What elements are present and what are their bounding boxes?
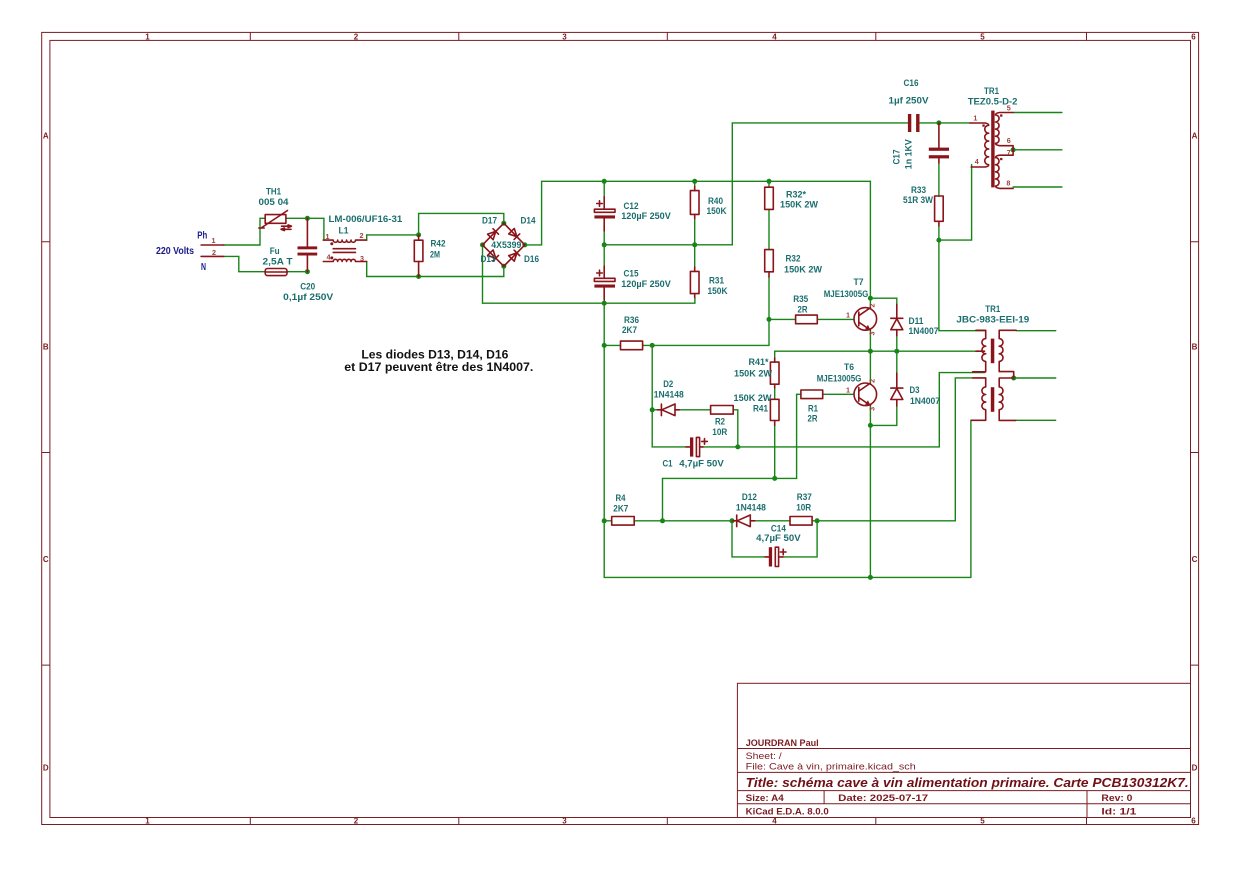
wire L1 pin2 to R42 top — [367, 234, 419, 236]
wire top rail to C12 — [603, 181, 605, 196]
svg-text:R41*: R41* — [749, 357, 769, 368]
wire mid rail to C15 — [603, 245, 605, 266]
svg-text:1N4148: 1N4148 — [654, 389, 685, 400]
wire pin1 to TH1 — [224, 218, 265, 245]
wire D3 cathode to rail — [896, 351, 898, 373]
diode D2 — [660, 404, 662, 416]
svg-text:0,1µf 250V: 0,1µf 250V — [283, 292, 334, 303]
svg-text:A: A — [43, 132, 49, 141]
wire D12 cathode lead — [732, 520, 737, 522]
wire R37 to TR1 riser — [812, 520, 955, 522]
wire TEZ pin8 output — [1013, 186, 1062, 188]
wire row drop to D12 row — [662, 478, 664, 520]
svg-text:A: A — [1192, 132, 1198, 141]
wire C15 bottom lead — [603, 300, 605, 303]
inductor L1 common-mode choke — [323, 240, 366, 261]
svg-text:R4: R4 — [616, 493, 627, 504]
wire top rail to R32* — [768, 181, 770, 187]
svg-text:TR1: TR1 — [985, 304, 1001, 315]
wire bridge right to top rail — [525, 181, 871, 245]
junction — [815, 518, 820, 523]
junction — [936, 120, 941, 125]
wire TEZ pin6-7 output — [1013, 149, 1062, 151]
wire emitter rail to TR1 tap — [775, 350, 976, 352]
svg-text:B: B — [43, 342, 49, 351]
wire T6 emitter to bottom rail — [869, 425, 871, 577]
svg-text:1µf 250V: 1µf 250V — [889, 96, 930, 107]
resistor R35 — [796, 315, 818, 324]
svg-text:File: Cave à vin, primaire.kic: File: Cave à vin, primaire.kicad_sch — [746, 762, 916, 772]
resistor R40 — [694, 187, 696, 219]
svg-text:3: 3 — [360, 254, 364, 263]
fuse Fu — [265, 269, 287, 276]
wire L1 pin2 riser — [366, 235, 368, 240]
wire R36 to R35 node column — [643, 344, 769, 346]
wire R32 bottom to R35 node — [768, 277, 770, 319]
svg-text:8: 8 — [1006, 179, 1010, 188]
wire R41 bottom drop — [774, 426, 776, 479]
svg-text:1: 1 — [326, 232, 330, 241]
svg-text:et D17 peuvent être des 1N4007: et D17 peuvent être des 1N4007. — [344, 360, 533, 374]
wire L1 pin3 to R42 bottom — [367, 262, 419, 277]
resistor R4 — [612, 517, 635, 526]
wire T7 collector to D11 — [870, 298, 896, 304]
junction — [602, 301, 607, 306]
wire pin2 to fuse — [224, 256, 265, 271]
diode D13 — [488, 250, 499, 261]
transformer TR1 TEZ0.5-D-2 — [970, 111, 1013, 189]
connector pin 2 N — [201, 255, 224, 257]
junction — [602, 179, 607, 184]
junction — [650, 343, 655, 348]
junction — [660, 518, 665, 523]
svg-text:Id: 1/1: Id: 1/1 — [1101, 806, 1136, 817]
svg-text:2: 2 — [354, 32, 359, 41]
resistor R32 — [765, 250, 774, 272]
svg-text:Sheet: /: Sheet: / — [746, 751, 783, 761]
connector pin 1 Ph — [201, 244, 224, 246]
svg-text:120µF 250V: 120µF 250V — [621, 211, 671, 222]
svg-text:JOURDRAN Paul: JOURDRAN Paul — [746, 737, 819, 748]
svg-text:B: B — [1192, 342, 1198, 351]
svg-text:1: 1 — [145, 817, 150, 826]
junction — [602, 518, 607, 523]
junction — [868, 575, 873, 580]
svg-text:2R: 2R — [798, 304, 808, 315]
capacitor C16 — [908, 114, 920, 132]
junction — [305, 216, 310, 221]
svg-text:150K 2W: 150K 2W — [734, 393, 773, 404]
svg-text:L1: L1 — [339, 225, 350, 236]
svg-text:D: D — [1192, 763, 1198, 772]
transistor T7 — [854, 308, 877, 331]
svg-text:D2: D2 — [663, 379, 673, 390]
transistor T6 — [854, 383, 877, 406]
junction — [730, 518, 735, 523]
resistor R2 — [711, 406, 734, 415]
svg-text:10R: 10R — [712, 427, 727, 438]
svg-text:2,5A T: 2,5A T — [263, 257, 293, 268]
transformer TR1 JBC-983-EEI-19 — [971, 330, 1016, 420]
svg-text:Date: 2025-07-17: Date: 2025-07-17 — [838, 792, 928, 803]
wire bridge left drop — [482, 245, 484, 303]
svg-text:5: 5 — [1007, 104, 1011, 113]
wire T6 emitter to D3 — [870, 406, 896, 426]
svg-text:D3: D3 — [910, 385, 920, 396]
svg-text:1N4007: 1N4007 — [910, 396, 940, 407]
svg-text:6: 6 — [1191, 817, 1196, 826]
svg-text:2: 2 — [868, 379, 877, 383]
capacitor C17 — [929, 123, 949, 163]
svg-text:4,7µF 50V: 4,7µF 50V — [756, 533, 801, 544]
junction — [767, 179, 772, 184]
svg-text:T6: T6 — [844, 362, 854, 373]
svg-text:R32: R32 — [786, 254, 801, 265]
wire C16 to TEZ pin1 — [920, 122, 970, 124]
wire R41 bottom row — [663, 477, 797, 479]
wire D12 to R37 — [750, 520, 790, 522]
wire R35 node drop — [768, 319, 770, 345]
junction — [868, 423, 873, 428]
svg-text:MJE13005G: MJE13005G — [824, 289, 869, 300]
wire fuse to C20 node — [287, 271, 307, 273]
wire TR1 output mid — [1014, 377, 1056, 379]
svg-text:51R 3W: 51R 3W — [903, 195, 934, 206]
junction — [522, 242, 527, 247]
svg-text:Rev: 0: Rev: 0 — [1101, 792, 1132, 803]
junction — [936, 238, 941, 243]
svg-text:4: 4 — [975, 157, 979, 166]
svg-text:Title: schéma cave à vin alime: Title: schéma cave à vin alimentation pr… — [746, 775, 1189, 790]
svg-text:MJE13005G: MJE13005G — [817, 374, 862, 385]
svg-text:C: C — [43, 555, 49, 564]
capacitor C20 — [298, 218, 318, 271]
svg-text:2: 2 — [212, 248, 216, 257]
svg-text:Fu: Fu — [270, 246, 280, 257]
diode D3 — [891, 387, 903, 389]
junction — [602, 242, 607, 247]
wire R42 bottom to bridge bottom — [419, 266, 504, 276]
wire D11 anode to rail — [896, 336, 898, 352]
svg-text:1N4007: 1N4007 — [909, 326, 939, 337]
wire top rail drop to T7 collector — [869, 181, 871, 298]
wire snubber node to TR1 primary top — [939, 240, 985, 331]
diode D11 — [891, 317, 903, 319]
wire R41* to R41 — [774, 384, 776, 399]
wire R35 node to R35 — [769, 318, 796, 320]
svg-text:6: 6 — [1191, 32, 1196, 41]
wire C12 bottom lead — [603, 231, 605, 245]
wire R1 left lead — [797, 393, 801, 395]
junction — [1011, 376, 1016, 381]
wire C14 left branch — [732, 521, 765, 557]
svg-text:3: 3 — [868, 332, 877, 336]
wire R4 left lead — [604, 520, 612, 522]
wire top rail to R40 — [694, 181, 696, 186]
junction — [650, 407, 655, 412]
wire C1 rail — [703, 446, 939, 448]
svg-text:Size: A4: Size: A4 — [746, 792, 785, 803]
svg-text:120µF 250V: 120µF 250V — [621, 279, 671, 290]
svg-text:4X5399: 4X5399 — [491, 240, 521, 251]
wire R42 top to bridge top — [419, 213, 504, 235]
svg-text:T7: T7 — [854, 277, 864, 288]
svg-text:2: 2 — [360, 231, 364, 240]
wire R35 to T7 base — [817, 318, 854, 320]
svg-text:7: 7 — [1007, 148, 1011, 157]
wire TR1 output bottom — [1016, 419, 1056, 421]
svg-text:D16: D16 — [524, 254, 539, 265]
diode D16 — [509, 250, 520, 261]
svg-text:Ph: Ph — [197, 230, 207, 241]
svg-text:150K 2W: 150K 2W — [784, 264, 823, 275]
svg-text:2K7: 2K7 — [622, 325, 637, 336]
junction — [1011, 147, 1016, 152]
svg-text:C1: C1 — [663, 458, 674, 469]
diode D14 — [509, 228, 520, 239]
junction — [480, 242, 485, 247]
capacitor C12 — [594, 197, 615, 231]
wire riser to TR1 sec top — [955, 378, 972, 521]
svg-text:2: 2 — [354, 817, 359, 826]
svg-text:1: 1 — [212, 236, 216, 245]
svg-text:N: N — [201, 262, 206, 273]
svg-text:C: C — [1192, 555, 1198, 564]
bridge frame wires — [483, 223, 525, 266]
wire R36 left lead — [604, 344, 620, 346]
svg-text:1N4148: 1N4148 — [736, 502, 767, 513]
wire T7 collector stub — [869, 298, 871, 308]
wire C17 to R33 top — [938, 163, 940, 196]
wire T6 collector riser — [869, 351, 871, 383]
svg-text:150K: 150K — [708, 286, 728, 297]
svg-text:D14: D14 — [521, 215, 537, 226]
wire TEZ pin5 output — [1013, 112, 1062, 114]
svg-text:D17: D17 — [482, 215, 497, 226]
junction — [868, 349, 873, 354]
wire R40 bottom — [694, 219, 696, 245]
svg-text:150K 2W: 150K 2W — [734, 368, 773, 379]
wire mid rail to C16 — [604, 123, 908, 245]
svg-text:3: 3 — [868, 407, 877, 411]
wire TR1 output top — [1016, 330, 1055, 332]
junction — [602, 343, 607, 348]
junction — [416, 274, 421, 279]
svg-text:6: 6 — [1007, 136, 1011, 145]
svg-text:2R: 2R — [808, 414, 818, 425]
svg-text:2K7: 2K7 — [613, 504, 628, 515]
junction — [501, 264, 506, 269]
svg-text:R41: R41 — [753, 404, 769, 415]
junction — [416, 232, 421, 237]
capacitor C14 — [765, 547, 786, 566]
junction — [767, 317, 772, 322]
svg-text:005 04: 005 04 — [259, 197, 290, 208]
svg-text:TH1: TH1 — [266, 186, 282, 197]
wire C1 rail to TR1 primary bottom — [939, 373, 984, 447]
wire mid rail to R31 — [694, 245, 696, 267]
wire bottom rail to TR1 sec bottom — [971, 420, 986, 577]
varistor TH1 — [259, 211, 292, 231]
resistor R31 — [694, 267, 696, 298]
wire D2 to R2 — [679, 409, 711, 411]
svg-text:220 Volts: 220 Volts — [156, 246, 194, 257]
svg-text:R42: R42 — [431, 239, 446, 250]
svg-text:4: 4 — [327, 253, 331, 262]
svg-text:1: 1 — [846, 386, 850, 395]
wire TH1 to L1 pin1 — [286, 218, 324, 240]
resistor R32* — [768, 186, 770, 188]
wire R32* to R32 — [768, 209, 770, 249]
svg-text:R2: R2 — [715, 417, 725, 428]
svg-text:1n 1KV: 1n 1KV — [904, 139, 915, 170]
svg-text:C17: C17 — [892, 150, 903, 165]
wire rail to R41* top — [774, 351, 776, 358]
wire R2 to C1 rail — [733, 410, 738, 447]
capacitor C1 — [686, 437, 707, 456]
diode D12 — [736, 515, 738, 527]
wire D2 anode lead — [652, 409, 657, 411]
svg-text:JBC-983-EEI-19: JBC-983-EEI-19 — [956, 315, 1029, 326]
svg-text:D: D — [43, 763, 49, 772]
svg-text:TR1: TR1 — [984, 86, 1000, 97]
svg-text:3: 3 — [562, 32, 567, 41]
resistor R41* — [774, 358, 776, 362]
junction — [501, 221, 506, 226]
wire R4 to D12 — [634, 520, 732, 522]
wire R36 node to D2 node — [651, 345, 653, 409]
svg-text:4,7µF 50V: 4,7µF 50V — [679, 458, 724, 469]
resistor R42 — [418, 235, 420, 277]
title block frame — [737, 683, 1190, 817]
svg-text:C16: C16 — [904, 78, 919, 89]
svg-text:1: 1 — [846, 310, 850, 319]
svg-text:D13: D13 — [481, 254, 496, 265]
svg-text:10R: 10R — [796, 502, 811, 513]
wire R1 left riser — [796, 394, 798, 478]
wire T6 emitter drop — [869, 405, 871, 426]
svg-text:2: 2 — [868, 304, 877, 308]
wire R33 bottom lead — [938, 226, 940, 240]
capacitor C15 — [594, 266, 615, 300]
junction — [735, 444, 740, 449]
svg-text:3: 3 — [562, 817, 567, 826]
svg-text:LM-006/UF16-31: LM-006/UF16-31 — [329, 214, 403, 225]
wire C14 right branch — [783, 521, 817, 557]
junction — [305, 269, 310, 274]
junction — [868, 296, 873, 301]
resistor R1 — [801, 390, 823, 399]
wire R33 node to TEZ pin4 — [939, 165, 972, 241]
wire D2 node to C1 — [652, 410, 686, 447]
junction — [894, 349, 899, 354]
resistor R41 — [770, 399, 779, 420]
resistor R36 — [621, 341, 643, 350]
junction — [772, 476, 777, 481]
svg-text:5: 5 — [980, 32, 985, 41]
wire left column and bottom rail — [604, 303, 971, 577]
junction — [692, 242, 697, 247]
svg-text:2M: 2M — [430, 250, 440, 261]
svg-text:150K: 150K — [707, 206, 727, 217]
svg-text:KiCad E.D.A. 8.0.0: KiCad E.D.A. 8.0.0 — [746, 806, 829, 817]
resistor R33 — [935, 196, 944, 221]
diode D17 — [488, 229, 499, 240]
wire R1 to T6 base — [823, 393, 854, 395]
wire lower rail to R31 bottom — [483, 298, 695, 304]
svg-text:1: 1 — [973, 114, 977, 123]
svg-text:1: 1 — [145, 32, 150, 41]
junction — [692, 179, 697, 184]
svg-text:150K 2W: 150K 2W — [780, 200, 819, 211]
resistor R37 — [790, 517, 812, 526]
wire rail T7 emitter — [869, 331, 871, 352]
svg-text:4: 4 — [772, 32, 777, 41]
